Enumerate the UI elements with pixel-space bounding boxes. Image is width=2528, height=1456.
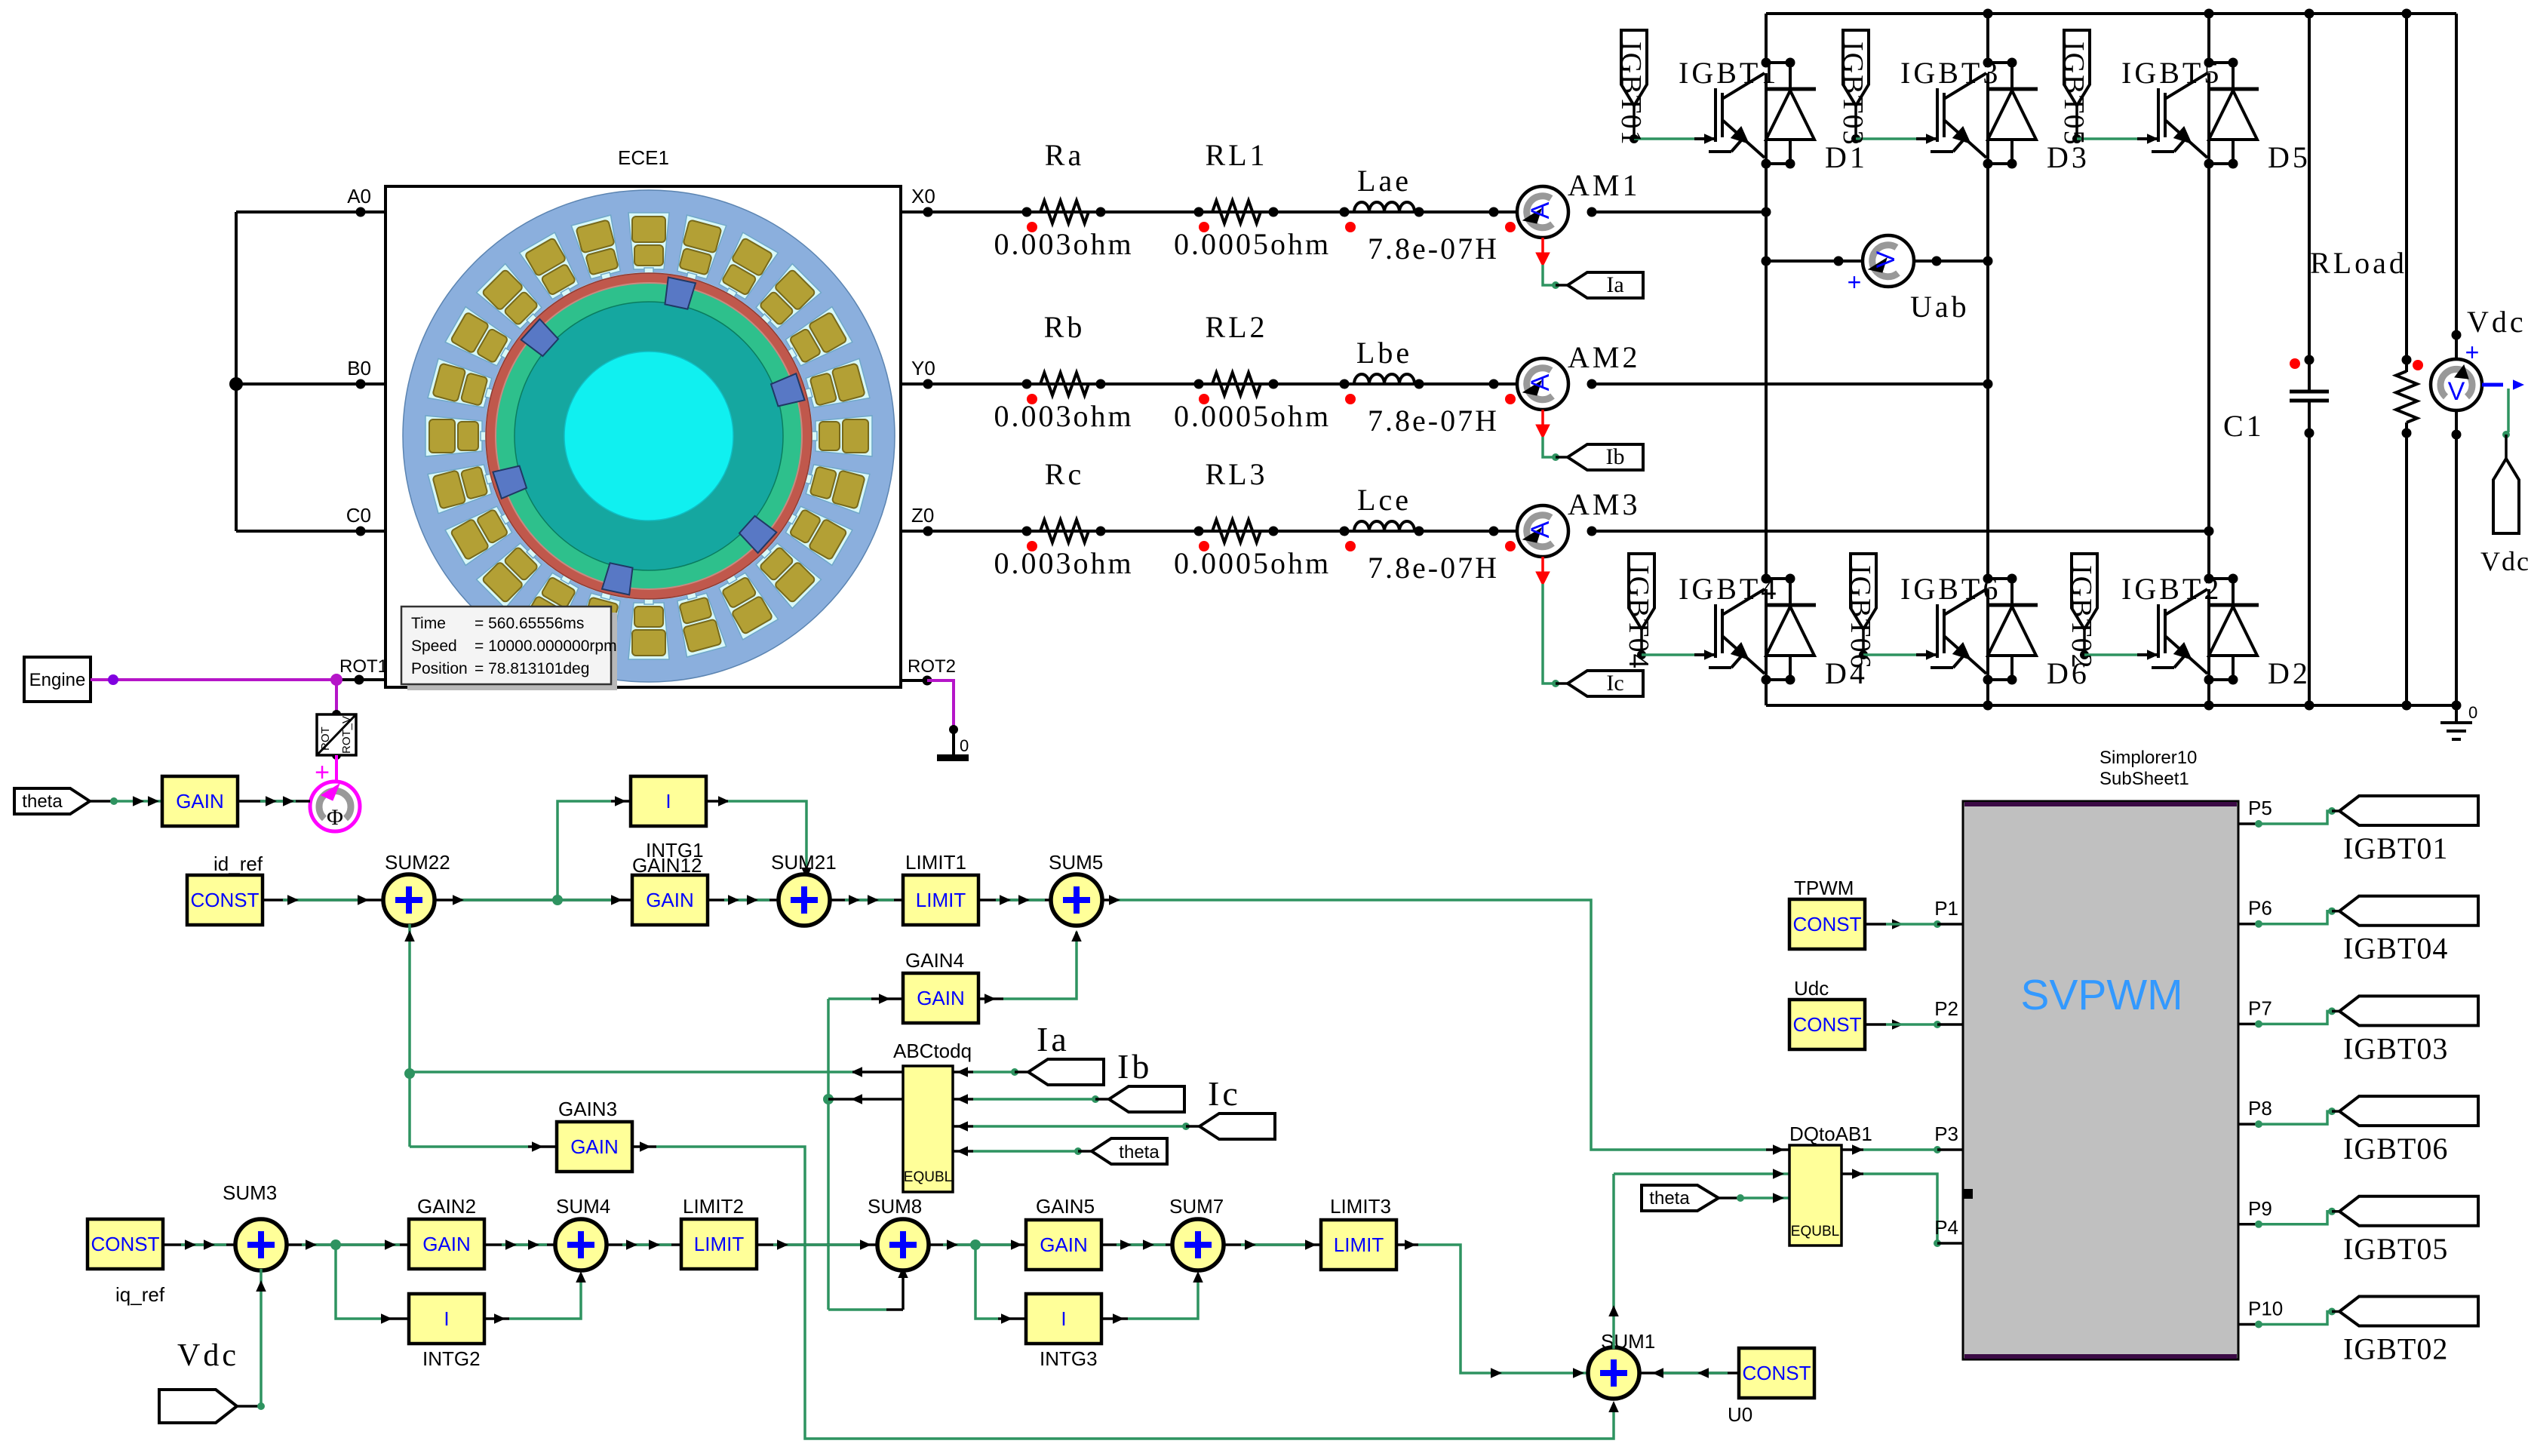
svg-text:0.003ohm: 0.003ohm <box>994 546 1133 580</box>
svg-text:7.8e-07H: 7.8e-07H <box>1368 232 1499 266</box>
svg-text:Lae: Lae <box>1357 164 1411 198</box>
svg-text:+: + <box>2465 339 2480 366</box>
svg-text:GAIN3: GAIN3 <box>558 1098 617 1120</box>
svg-text:theta: theta <box>1119 1142 1160 1163</box>
svg-text:0.003ohm: 0.003ohm <box>994 399 1133 433</box>
svg-text:GAIN5: GAIN5 <box>1036 1195 1095 1218</box>
svg-text:Vdc: Vdc <box>2480 546 2528 576</box>
svg-text:iq_ref: iq_ref <box>115 1283 165 1306</box>
svg-text:V: V <box>2448 377 2465 406</box>
svg-text:GAIN4: GAIN4 <box>905 949 964 972</box>
svg-text:EQUBL: EQUBL <box>1791 1224 1839 1239</box>
svg-text:P1: P1 <box>1934 897 1958 920</box>
svg-text:SUM3: SUM3 <box>223 1181 277 1204</box>
svg-text:Ra: Ra <box>1045 138 1084 172</box>
svg-text:theta: theta <box>22 791 63 812</box>
svg-text:Rb: Rb <box>1044 310 1086 344</box>
svg-text:P2: P2 <box>1934 997 1958 1020</box>
svg-text:Ic: Ic <box>1606 671 1623 696</box>
svg-text:IGBT06: IGBT06 <box>2343 1132 2448 1166</box>
svg-text:IGBT02: IGBT02 <box>2066 565 2097 670</box>
svg-text:LIMIT2: LIMIT2 <box>683 1195 744 1218</box>
svg-text:ROT: ROT <box>319 726 332 751</box>
svg-text:CONST: CONST <box>191 889 260 911</box>
svg-text:P3: P3 <box>1934 1123 1958 1145</box>
svg-text:Ia: Ia <box>1606 272 1623 297</box>
svg-text:Lbe: Lbe <box>1356 336 1412 370</box>
svg-text:Speed: Speed <box>411 637 457 655</box>
svg-text:IGBT05: IGBT05 <box>2343 1232 2448 1266</box>
svg-text:GAIN: GAIN <box>176 790 224 812</box>
svg-text:LIMIT: LIMIT <box>916 889 966 911</box>
svg-text:Lce: Lce <box>1357 483 1411 517</box>
svg-text:P5: P5 <box>2248 797 2272 819</box>
svg-text:Vdc: Vdc <box>177 1338 239 1373</box>
svg-text:SUM22: SUM22 <box>385 851 450 874</box>
svg-text:ROT1: ROT1 <box>339 656 388 677</box>
svg-text:GAIN: GAIN <box>646 889 694 911</box>
svg-text:RL3: RL3 <box>1205 457 1267 491</box>
svg-text:P8: P8 <box>2248 1097 2272 1120</box>
svg-text:I: I <box>444 1307 449 1330</box>
svg-text:Position: Position <box>411 660 468 677</box>
svg-text:A0: A0 <box>347 185 371 207</box>
svg-text:V: V <box>1872 250 1900 268</box>
svg-text:0.0005ohm: 0.0005ohm <box>1174 399 1331 433</box>
svg-text:theta: theta <box>1649 1188 1690 1209</box>
svg-text:LIMIT: LIMIT <box>694 1233 745 1255</box>
svg-text:IGBT5: IGBT5 <box>2121 56 2222 90</box>
svg-text:0.003ohm: 0.003ohm <box>994 227 1133 261</box>
svg-text:GAIN: GAIN <box>1040 1233 1088 1256</box>
svg-text:IGBT03: IGBT03 <box>1837 41 1869 146</box>
svg-text:U0: U0 <box>1728 1403 1752 1426</box>
svg-text:CONST: CONST <box>1793 1013 1862 1036</box>
svg-text:IGBT03: IGBT03 <box>2343 1031 2448 1065</box>
svg-text:IGBT06: IGBT06 <box>1845 565 1876 670</box>
svg-text:0: 0 <box>2468 703 2477 722</box>
svg-text:GAIN: GAIN <box>917 987 965 1009</box>
svg-text:AM2: AM2 <box>1568 340 1640 374</box>
svg-text:IGBT6: IGBT6 <box>1900 572 2001 606</box>
svg-text:C1: C1 <box>2223 409 2265 443</box>
svg-text:IGBT4: IGBT4 <box>1679 572 1779 606</box>
svg-text:IGBT1: IGBT1 <box>1679 56 1779 90</box>
svg-text:A: A <box>1526 521 1555 538</box>
svg-text:P7: P7 <box>2248 997 2272 1019</box>
svg-text:ROT_V: ROT_V <box>340 716 353 754</box>
svg-text:Rc: Rc <box>1045 457 1084 491</box>
svg-text:0.0005ohm: 0.0005ohm <box>1174 227 1331 261</box>
svg-text:Uab: Uab <box>1910 290 1970 324</box>
svg-text:A: A <box>1526 201 1555 219</box>
svg-text:P4: P4 <box>1934 1216 1958 1239</box>
svg-text:LIMIT1: LIMIT1 <box>905 851 966 874</box>
svg-text:RLoad: RLoad <box>2310 246 2407 280</box>
svg-text:INTG3: INTG3 <box>1040 1347 1098 1370</box>
svg-text:= 78.813101deg: = 78.813101deg <box>475 660 589 677</box>
svg-text:Time: Time <box>411 615 446 632</box>
svg-text:0.0005ohm: 0.0005ohm <box>1174 546 1331 580</box>
svg-text:C0: C0 <box>346 504 371 527</box>
svg-text:Ib: Ib <box>1606 444 1625 469</box>
svg-text:Φ: Φ <box>327 805 343 830</box>
svg-text:SVPWM: SVPWM <box>2020 971 2182 1019</box>
svg-text:IGBT04: IGBT04 <box>1623 565 1654 670</box>
svg-text:Simplorer10: Simplorer10 <box>2099 748 2197 768</box>
svg-text:SUM7: SUM7 <box>1169 1195 1224 1218</box>
svg-text:INTG2: INTG2 <box>422 1347 481 1370</box>
svg-text:EQUBL: EQUBL <box>904 1169 952 1185</box>
svg-text:RL1: RL1 <box>1205 138 1267 172</box>
svg-text:CONST: CONST <box>1743 1362 1811 1384</box>
svg-text:SUM21: SUM21 <box>771 851 837 874</box>
svg-text:SubSheet1: SubSheet1 <box>2099 769 2189 789</box>
svg-text:IGBT05: IGBT05 <box>2058 41 2090 146</box>
svg-text:+: + <box>1848 269 1862 296</box>
svg-text:GAIN12: GAIN12 <box>632 854 702 877</box>
svg-text:CONST: CONST <box>91 1233 160 1255</box>
svg-text:id_ref: id_ref <box>213 852 263 875</box>
svg-text:AM1: AM1 <box>1568 168 1640 202</box>
svg-text:RL2: RL2 <box>1205 310 1267 344</box>
svg-text:Engine: Engine <box>29 670 86 690</box>
svg-text:I: I <box>665 790 671 812</box>
svg-text:7.8e-07H: 7.8e-07H <box>1368 404 1499 438</box>
svg-text:IGBT01: IGBT01 <box>2343 831 2448 865</box>
svg-text:P6: P6 <box>2248 897 2272 920</box>
svg-text:0: 0 <box>960 736 969 755</box>
svg-text:I: I <box>1061 1307 1066 1330</box>
svg-text:Z0: Z0 <box>911 504 934 527</box>
svg-text:Ic: Ic <box>1208 1074 1241 1113</box>
svg-text:ROT2: ROT2 <box>908 656 956 677</box>
svg-text:Ib: Ib <box>1117 1047 1152 1086</box>
svg-text:ECE1: ECE1 <box>618 146 669 169</box>
svg-text:IGBT04: IGBT04 <box>2343 932 2448 966</box>
svg-text:LIMIT3: LIMIT3 <box>1330 1195 1391 1218</box>
svg-text:AM3: AM3 <box>1568 487 1640 521</box>
svg-text:GAIN2: GAIN2 <box>417 1195 476 1218</box>
svg-text:CONST: CONST <box>1793 913 1862 935</box>
svg-text:SUM5: SUM5 <box>1049 851 1103 874</box>
svg-text:LIMIT: LIMIT <box>1334 1233 1384 1256</box>
svg-text:IGBT2: IGBT2 <box>2121 572 2222 606</box>
svg-text:TPWM: TPWM <box>1794 877 1854 899</box>
svg-text:ABCtodq: ABCtodq <box>893 1040 972 1062</box>
svg-text:IGBT3: IGBT3 <box>1900 56 2001 90</box>
svg-text:SUM4: SUM4 <box>556 1195 610 1218</box>
svg-text:Vdc: Vdc <box>2467 305 2526 339</box>
svg-text:DQtoAB1: DQtoAB1 <box>1789 1123 1872 1145</box>
svg-text:X0: X0 <box>911 185 935 207</box>
svg-text:P10: P10 <box>2248 1298 2283 1320</box>
svg-text:IGBT01: IGBT01 <box>1615 41 1647 146</box>
svg-text:= 10000.000000rpm: = 10000.000000rpm <box>475 637 617 655</box>
svg-text:Ia: Ia <box>1037 1020 1070 1058</box>
svg-text:IGBT02: IGBT02 <box>2343 1332 2448 1366</box>
svg-text:D5: D5 <box>2268 140 2311 174</box>
svg-text:= 560.65556ms: = 560.65556ms <box>475 615 584 632</box>
svg-text:B0: B0 <box>347 357 371 379</box>
svg-text:GAIN: GAIN <box>570 1135 619 1158</box>
svg-text:Y0: Y0 <box>911 357 935 379</box>
svg-text:P9: P9 <box>2248 1197 2272 1220</box>
svg-text:SUM8: SUM8 <box>868 1195 922 1218</box>
svg-text:GAIN: GAIN <box>422 1233 471 1255</box>
svg-text:D2: D2 <box>2268 656 2311 690</box>
svg-text:A: A <box>1526 373 1555 391</box>
svg-text:SUM1: SUM1 <box>1601 1330 1655 1353</box>
svg-text:7.8e-07H: 7.8e-07H <box>1368 551 1499 585</box>
svg-text:Udc: Udc <box>1794 977 1829 1000</box>
